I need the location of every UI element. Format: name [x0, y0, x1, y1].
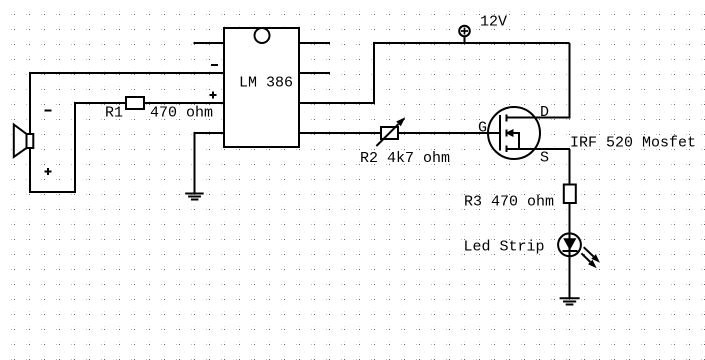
speaker LS1 driver box: [27, 134, 34, 148]
LED D1 circle: [558, 233, 581, 256]
Q1 gate bar: [499, 115, 501, 151]
LED arrowhead 2: [588, 260, 597, 269]
ground (LM386): [185, 194, 204, 200]
svg-text:S: S: [540, 150, 549, 167]
R2 arrowhead: [396, 117, 405, 126]
transistor Q1 body circle: [488, 107, 540, 159]
R2 arrow line: [376, 124, 398, 146]
svg-text:12V: 12V: [480, 14, 507, 31]
12V supply circle: [459, 26, 470, 37]
LED arrowhead 1: [591, 254, 600, 263]
wire speaker plus terminal to R1: [30, 103, 126, 192]
variable resistor R2 box: [381, 127, 398, 139]
LED cathode bar: [563, 250, 578, 252]
wire LM386 pin5 output through R2 to gate: [299, 132, 500, 134]
resistor R3: [564, 185, 576, 204]
wire Q1 source stub: [507, 148, 571, 150]
Q1 body-source link: [513, 133, 519, 149]
wire R3 through LED D1 to ground: [569, 203, 571, 298]
resistor R1: [126, 97, 144, 109]
wire LM386 pin1 stub: [194, 42, 225, 44]
label minus (pin2): [211, 64, 218, 66]
wire LM386 pin7 stub: [299, 72, 330, 74]
svg-text:R3 470 ohm: R3 470 ohm: [464, 194, 554, 211]
speaker LS1 cone: [14, 125, 27, 158]
svg-text:D: D: [540, 104, 549, 121]
wire LM386 pin8 stub: [299, 42, 330, 44]
LED light arrow 2 line: [581, 253, 590, 262]
ground (LED): [560, 298, 580, 304]
svg-text:470 ohm: 470 ohm: [150, 105, 213, 122]
LED light arrow 1 line: [584, 247, 594, 256]
12V plus sign: [461, 28, 468, 35]
wire Q1 drain from 12V rail: [507, 43, 570, 118]
svg-text:Led Strip: Led Strip: [464, 239, 545, 256]
svg-text:IRF 520 Mosfet: IRF 520 Mosfet: [570, 135, 696, 152]
wire speaker minus terminal to LM386 pin2: [30, 73, 224, 134]
svg-text:R1: R1: [105, 105, 123, 122]
label minus (speaker): [45, 110, 52, 112]
Q1 channel bar: [506, 115, 508, 153]
wire source node to R3: [569, 149, 571, 185]
U1 notch circle: [255, 28, 270, 43]
op-amp U1 LM386 body: [224, 28, 299, 147]
label plus (pin3): [210, 92, 217, 99]
wire LM386 pin6 to 12V rail: [299, 43, 570, 103]
svg-text:LM 386: LM 386: [239, 75, 293, 92]
LED D1 triangle: [563, 238, 576, 250]
12V supply stub: [464, 37, 466, 44]
svg-text:R2 4k7 ohm: R2 4k7 ohm: [360, 150, 450, 167]
label plus (speaker): [45, 168, 52, 175]
svg-text:G: G: [478, 120, 487, 137]
wire R1 to LM386 pin3: [144, 102, 224, 104]
Q1 arrowhead: [505, 129, 513, 137]
wire LM386 pin4 to ground: [195, 133, 225, 193]
